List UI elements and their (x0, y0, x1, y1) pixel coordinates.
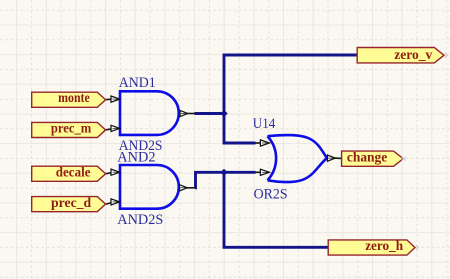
pin U14.out (327, 155, 341, 161)
tip mark at zero_h port (416, 245, 419, 250)
svg-text:AND1: AND1 (119, 75, 156, 91)
tip mark at zero_v port (445, 53, 448, 58)
port prec_d (32, 197, 106, 212)
pin AND2.in2 (106, 199, 120, 205)
port monte (32, 92, 106, 107)
svg-text:zero_v: zero_v (394, 48, 432, 63)
svg-text:AND2: AND2 (117, 150, 155, 166)
pin U14.in2 (255, 169, 269, 175)
svg-text:zero_h: zero_h (365, 239, 403, 254)
pin AND2.in1 (106, 169, 120, 175)
svg-text:decale: decale (56, 166, 91, 181)
wire from AND2 output pin up then right through junction B to OR2S U14 bottom input (195, 172, 256, 188)
and-gate AND1 (120, 91, 179, 135)
svg-text:prec_m: prec_m (51, 121, 92, 136)
port change (342, 151, 404, 166)
tip mark at change port (402, 157, 406, 161)
svg-text:monte: monte (58, 91, 90, 106)
svg-text:U14: U14 (253, 116, 276, 132)
wire from junction B down at x=224 then right to zero_h port (224, 172, 329, 247)
pin AND1.out (180, 110, 196, 116)
pin AND1.in1 (106, 96, 120, 102)
port zero_h (328, 240, 415, 255)
pin U14.in1 (255, 140, 269, 146)
svg-text:change: change (347, 150, 387, 165)
port zero_v (357, 48, 444, 63)
or-gate U14 (268, 135, 327, 182)
pin AND1.in2 (106, 125, 120, 131)
pin AND2.out (180, 185, 196, 191)
wire from zero_v port left along top, down at x=224 to OR2S U14 top input (224, 55, 358, 143)
and-gate AND2 (120, 165, 179, 209)
svg-text:prec_d: prec_d (51, 196, 91, 211)
svg-text:AND2S: AND2S (117, 212, 163, 228)
wire from AND1 output pin right to junction A (195, 112, 226, 115)
port prec_m (32, 122, 106, 137)
junction A (node at AND1 output / zero_v net) (220, 110, 227, 117)
svg-text:OR2S: OR2S (254, 186, 288, 202)
port decale (32, 166, 106, 181)
junction B (node at AND2 output / zero_h net) (220, 169, 227, 176)
